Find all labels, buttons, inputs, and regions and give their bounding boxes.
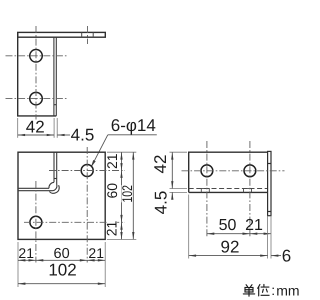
plan view: plate outline [18, 152, 105, 239]
side view: left dim extension lines [170, 152, 188, 192]
svg-text:21: 21 [103, 221, 119, 237]
front view: dim arrows [18, 134, 65, 136]
front view: dim line 42 / 4.5 [18, 134, 70, 136]
front view: top flange plate (edge view) [18, 32, 106, 37]
svg-text:102: 102 [48, 261, 76, 280]
svg-text:92: 92 [221, 238, 240, 257]
side view: right flange [268, 151, 271, 215]
front view: dim extension lines [18, 118, 58, 138]
svg-text:6-φ14: 6-φ14 [111, 116, 156, 135]
front view: flange hole edge lines [82, 32, 94, 37]
front view: flange hole center line [87, 26, 89, 44]
front view: vertical plate outline [18, 32, 57, 116]
svg-text:21: 21 [18, 245, 34, 261]
front view: hole 2 [30, 92, 43, 105]
front view: plate right face double line [54, 37, 56, 116]
plan view: hole top-right [81, 165, 93, 177]
svg-text:mm: mm [276, 283, 299, 299]
side view: hole 2 [244, 165, 256, 177]
svg-text:4.5: 4.5 [71, 126, 95, 145]
side view: center lines [182, 141, 285, 237]
plan view: right dim texts (rotated) [107, 153, 132, 236]
leader 6-phi14 [91, 135, 157, 167]
side view: left dim arrows [171, 152, 173, 200]
side view: hole voids in section [201, 189, 252, 193]
svg-text:60: 60 [54, 246, 70, 262]
plan view: hole bottom-left [30, 216, 42, 228]
side view: dim line 42 / 4.5 [171, 152, 173, 199]
svg-text:102: 102 [119, 185, 135, 203]
svg-text:21: 21 [104, 153, 120, 169]
svg-text:6: 6 [282, 247, 291, 266]
side view: hole 1 [201, 165, 213, 177]
side view: plate outline [189, 152, 268, 192]
plan view: center lines [24, 147, 125, 263]
svg-text::: : [271, 282, 275, 298]
plan view: right dim arrows [120, 152, 134, 239]
plan view: right dim extension lines [107, 152, 136, 239]
svg-text:50: 50 [219, 217, 237, 234]
svg-text:4.5: 4.5 [152, 191, 171, 215]
side view: flange extension lines [189, 195, 271, 259]
plan view: bottom dim lines [18, 260, 105, 283]
front view: hole center lines [6, 26, 69, 120]
svg-text:42: 42 [26, 117, 45, 136]
side view: dim line 92 [189, 255, 281, 257]
plan view: right dim chain 21/60/21 [122, 152, 134, 239]
svg-text:21: 21 [245, 217, 263, 234]
note: unit label "tan-i" drawn as vector strokes [243, 285, 269, 297]
side view: bottom dim lines 50/21 [207, 233, 271, 235]
plan view: bottom dim arrows [18, 259, 105, 285]
svg-text:42: 42 [151, 155, 170, 174]
front view: hole 1 [30, 50, 43, 63]
side view: hidden top surface dashed line [189, 188, 268, 190]
svg-text:60: 60 [104, 183, 120, 199]
svg-text:21: 21 [88, 245, 104, 261]
plan view: bent wall seen from above (double lines with bend arcs) [18, 152, 59, 193]
plan view: bottom dim extension lines [18, 242, 105, 287]
